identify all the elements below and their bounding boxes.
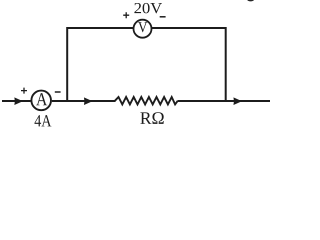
current arrow (left, pointing right) bbox=[15, 98, 22, 104]
wire: ammeter to node B bbox=[52, 100, 67, 102]
resistor value label RΩ bbox=[140, 112, 163, 124]
ammeter + polarity mark bbox=[21, 88, 27, 94]
ammeter A1 bbox=[31, 91, 51, 111]
voltmeter - polarity mark bbox=[160, 16, 166, 18]
node B: left junction and vertical branch up to top-left corner bbox=[67, 28, 133, 102]
wire: node B to resistor bbox=[67, 100, 115, 102]
ammeter value label 4A bbox=[35, 115, 52, 126]
current arrow (right, out of node C) bbox=[234, 98, 241, 104]
node C: right junction and vertical branch up to top-right corner bbox=[151, 28, 225, 102]
ammeter - polarity mark bbox=[55, 91, 61, 93]
ammeter letter A bbox=[36, 93, 47, 105]
wire: resistor to node C bbox=[178, 100, 226, 102]
current arrow (middle, into resistor) bbox=[85, 98, 92, 104]
wire: bottom left segment into ammeter bbox=[2, 100, 31, 102]
wire: node C to right edge bbox=[226, 100, 270, 102]
voltmeter value label 20V bbox=[134, 3, 162, 14]
voltmeter V1 bbox=[134, 20, 152, 38]
voltmeter letter V bbox=[138, 22, 147, 32]
voltmeter + polarity mark bbox=[123, 12, 129, 18]
resistor R zigzag bbox=[115, 97, 178, 104]
stray cropped ink at top edge bbox=[247, 0, 254, 1]
